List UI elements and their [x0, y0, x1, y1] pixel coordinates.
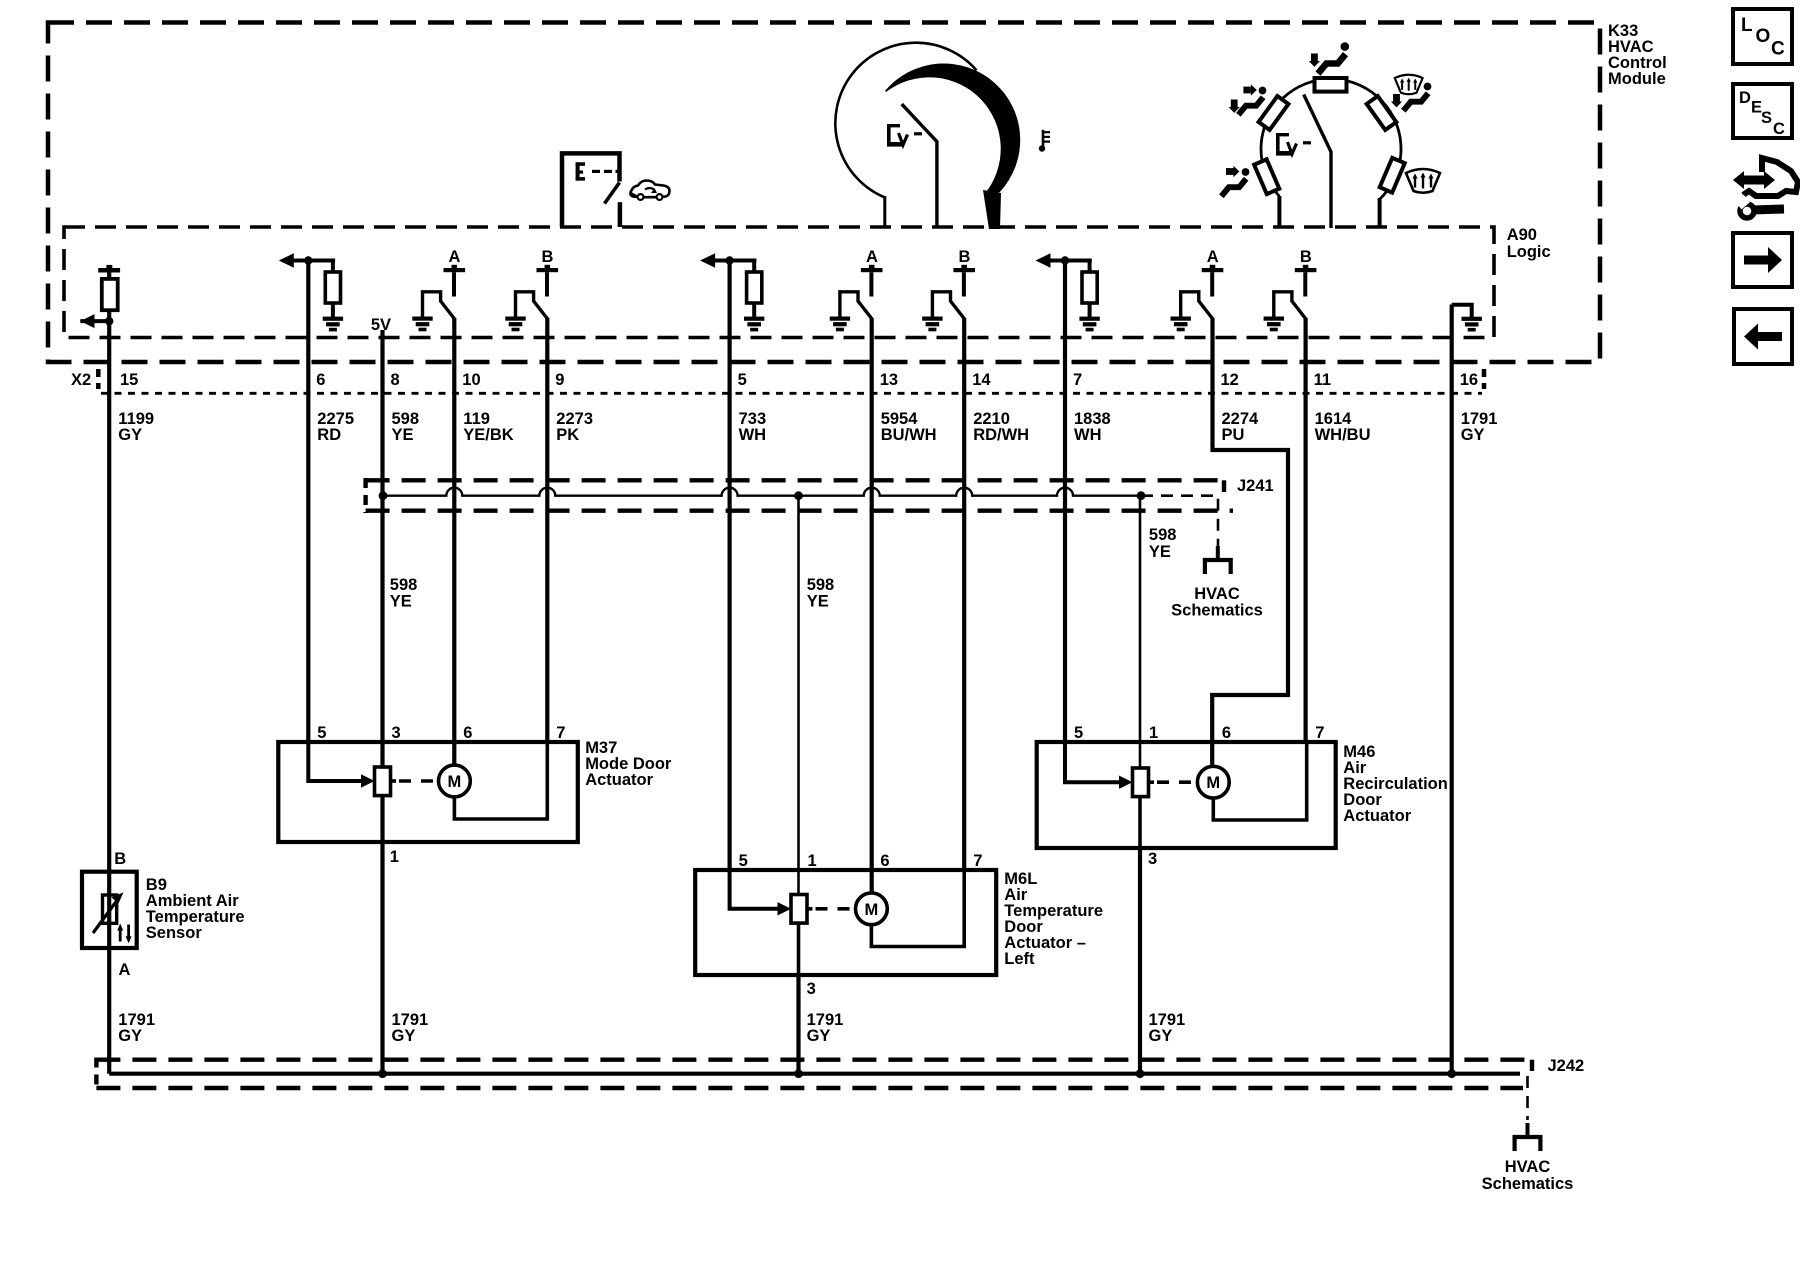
svg-text:Schematics: Schematics — [1171, 602, 1263, 620]
svg-text:Actuator: Actuator — [1343, 807, 1411, 825]
svg-text:6: 6 — [463, 724, 472, 742]
svg-text:5: 5 — [317, 724, 326, 742]
svg-text:C: C — [1771, 39, 1785, 60]
svg-text:12: 12 — [1221, 371, 1239, 389]
svg-text:D: D — [1739, 89, 1751, 107]
svg-text:7: 7 — [973, 852, 982, 870]
svg-text:7: 7 — [556, 724, 565, 742]
svg-text:YE: YE — [390, 593, 412, 611]
svg-text:5: 5 — [738, 371, 747, 389]
svg-text:Left: Left — [1004, 950, 1035, 968]
svg-text:GY: GY — [118, 1027, 142, 1045]
svg-text:10: 10 — [462, 371, 480, 389]
svg-text:1: 1 — [808, 852, 817, 870]
svg-text:598: 598 — [1149, 526, 1177, 544]
svg-text:PU: PU — [1222, 426, 1245, 444]
svg-text:1: 1 — [1149, 724, 1158, 742]
svg-text:3: 3 — [392, 724, 401, 742]
svg-text:GY: GY — [392, 1027, 416, 1045]
svg-text:J242: J242 — [1548, 1057, 1585, 1075]
svg-text:WH/BU: WH/BU — [1315, 426, 1371, 444]
svg-text:A: A — [1207, 248, 1219, 266]
svg-text:PK: PK — [556, 426, 579, 444]
svg-text:M: M — [865, 901, 879, 919]
svg-text:Logic: Logic — [1507, 243, 1551, 261]
svg-text:BU/WH: BU/WH — [881, 426, 937, 444]
svg-text:GY: GY — [118, 426, 142, 444]
svg-text:HVAC: HVAC — [1505, 1158, 1551, 1176]
svg-text:RD/WH: RD/WH — [973, 426, 1029, 444]
svg-text:B: B — [959, 248, 971, 266]
svg-text:B: B — [542, 248, 554, 266]
svg-text:O: O — [1756, 26, 1771, 47]
svg-text:YE/BK: YE/BK — [463, 426, 514, 444]
svg-text:3: 3 — [807, 980, 816, 998]
svg-text:5: 5 — [739, 852, 748, 870]
svg-text:6: 6 — [1222, 724, 1231, 742]
svg-text:X2: X2 — [71, 371, 91, 389]
svg-text:M: M — [1206, 774, 1220, 792]
svg-text:3: 3 — [1148, 850, 1157, 868]
svg-text:8: 8 — [391, 371, 400, 389]
svg-text:598: 598 — [807, 576, 835, 594]
svg-text:A: A — [119, 961, 131, 979]
svg-text:WH: WH — [739, 426, 767, 444]
svg-text:Module: Module — [1608, 70, 1666, 88]
svg-text:A: A — [866, 248, 878, 266]
svg-text:6: 6 — [880, 852, 889, 870]
svg-text:M: M — [448, 773, 462, 791]
svg-text:L: L — [1741, 15, 1753, 36]
svg-text:B: B — [114, 850, 126, 868]
svg-text:Schematics: Schematics — [1482, 1175, 1574, 1193]
svg-text:YE: YE — [1149, 543, 1171, 561]
svg-text:Sensor: Sensor — [146, 924, 203, 942]
svg-text:HVAC: HVAC — [1194, 585, 1240, 603]
svg-text:YE: YE — [807, 593, 829, 611]
svg-text:7: 7 — [1073, 371, 1082, 389]
svg-text:5: 5 — [1074, 724, 1083, 742]
svg-text:15: 15 — [120, 371, 138, 389]
svg-text:6: 6 — [316, 371, 325, 389]
svg-text:GY: GY — [1461, 426, 1485, 444]
svg-text:RD: RD — [317, 426, 341, 444]
svg-text:YE: YE — [392, 426, 414, 444]
svg-text:9: 9 — [555, 371, 564, 389]
svg-text:5V: 5V — [371, 316, 391, 334]
svg-text:7: 7 — [1315, 724, 1324, 742]
svg-text:GY: GY — [1149, 1027, 1173, 1045]
svg-text:1: 1 — [390, 848, 399, 866]
svg-text:Actuator: Actuator — [585, 771, 653, 789]
svg-text:11: 11 — [1314, 371, 1331, 389]
svg-text:B: B — [1300, 248, 1312, 266]
svg-text:J241: J241 — [1237, 477, 1274, 495]
svg-text:S: S — [1761, 109, 1772, 127]
svg-text:14: 14 — [972, 371, 991, 389]
svg-text:A: A — [449, 248, 461, 266]
svg-text:A90: A90 — [1507, 226, 1537, 244]
svg-text:C: C — [1773, 120, 1785, 138]
svg-text:GY: GY — [807, 1027, 831, 1045]
svg-text:WH: WH — [1074, 426, 1102, 444]
svg-text:598: 598 — [390, 576, 418, 594]
svg-text:13: 13 — [880, 371, 898, 389]
svg-text:16: 16 — [1460, 371, 1478, 389]
